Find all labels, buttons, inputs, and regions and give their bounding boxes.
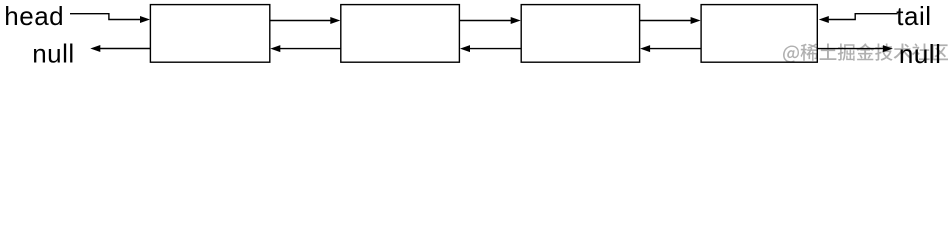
head arrowhead [140, 16, 150, 23]
null-left wire [100, 48, 150, 50]
prev wire 4-3 [650, 48, 701, 50]
next arrowhead 3-4 [691, 17, 701, 24]
node box 1 [150, 5, 269, 63]
null-right wire [817, 48, 883, 50]
tail pointer wire [829, 14, 898, 20]
watermark @稀土掘金技术社区 [783, 43, 948, 62]
prev arrowhead 3-2 [460, 45, 470, 52]
prev arrowhead 4-3 [640, 45, 650, 52]
null-left arrowhead [90, 45, 100, 52]
svg-text:null: null [32, 39, 74, 69]
head pointer wire [70, 14, 141, 20]
node box 4 [701, 5, 817, 63]
doubly linked list diagram [0, 0, 951, 70]
node box 3 [521, 5, 639, 63]
node box 2 [341, 5, 460, 63]
next wire 2-3 [459, 20, 511, 22]
next wire 3-4 [640, 20, 691, 22]
null-right arrowhead [883, 45, 893, 52]
next wire 1-2 [270, 20, 331, 22]
svg-text:null: null [899, 39, 941, 69]
prev arrowhead 2-1 [270, 45, 280, 52]
prev wire 3-2 [470, 48, 521, 50]
svg-text:tail: tail [896, 1, 931, 31]
prev wire 2-1 [280, 48, 341, 50]
next arrowhead 2-3 [511, 17, 521, 24]
svg-text:head: head [4, 1, 64, 31]
next arrowhead 1-2 [330, 17, 340, 24]
tail arrowhead [819, 16, 829, 23]
